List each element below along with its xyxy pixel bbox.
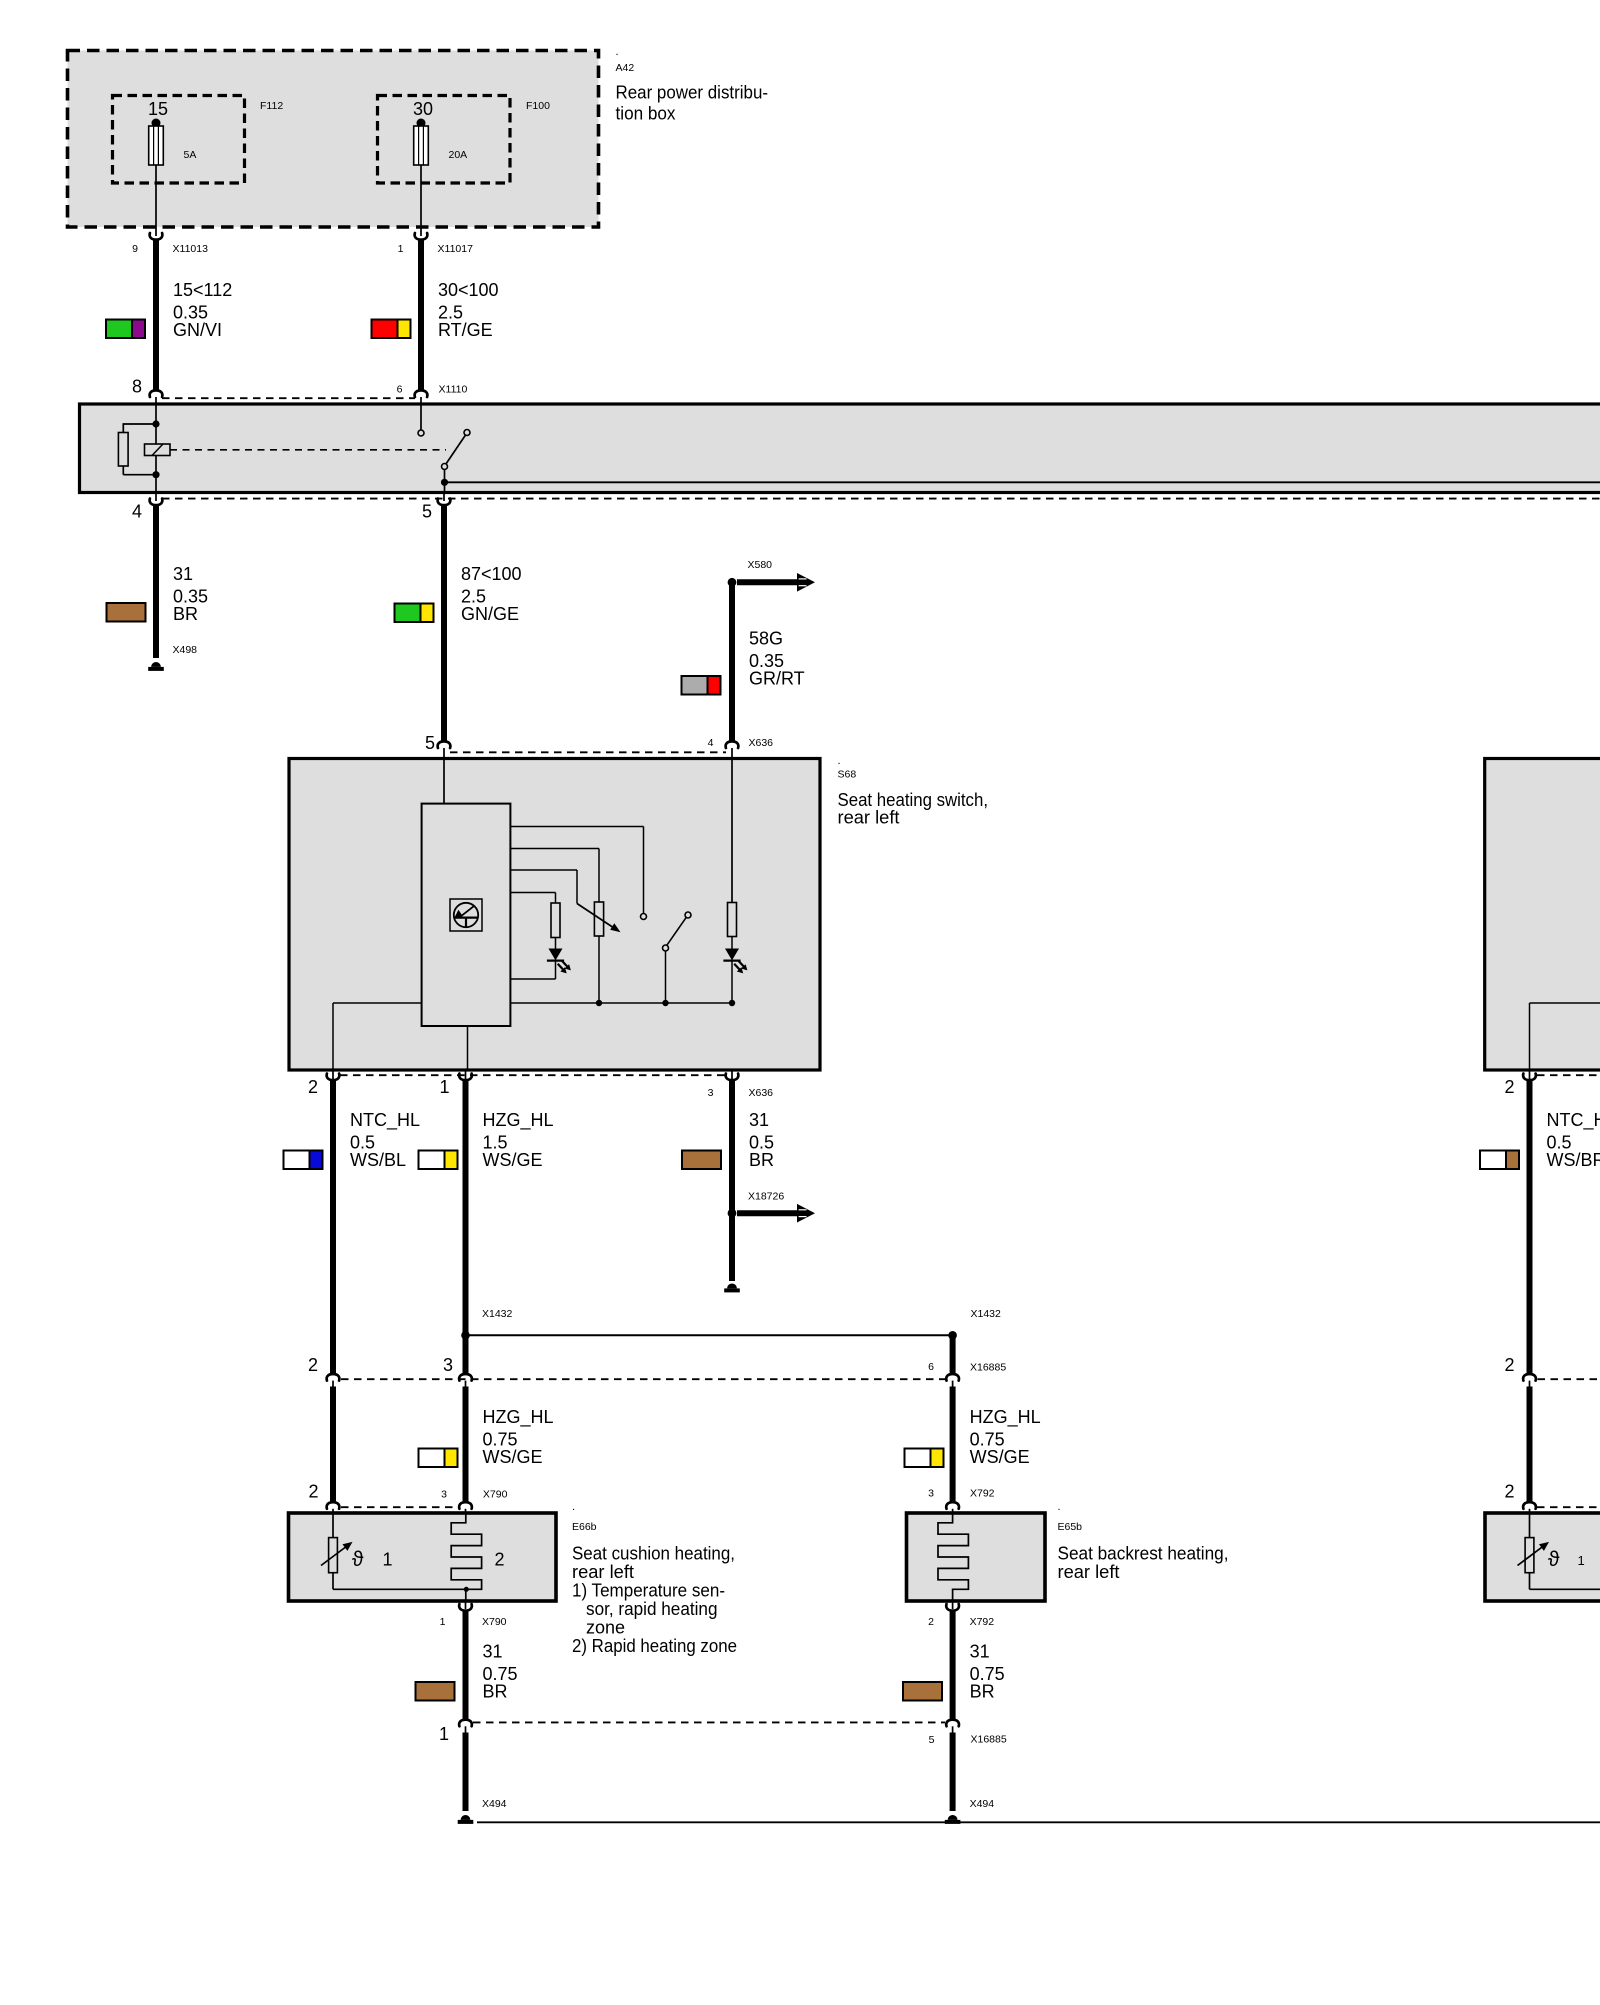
fuse holder F100 box bbox=[378, 96, 511, 184]
backlight resistor right bbox=[731, 748, 733, 903]
svg-text:8: 8 bbox=[132, 377, 142, 397]
svg-text:1) Temperature sen-: 1) Temperature sen- bbox=[572, 1581, 725, 1601]
wire 15<112 0.35 GN/VI bbox=[153, 239, 159, 391]
backlight LED right bbox=[725, 949, 739, 961]
relay coil branch wire bbox=[155, 404, 157, 493]
relay contact input from X1110 bbox=[420, 404, 422, 430]
seat backrest heating E65b box bbox=[907, 1513, 1046, 1601]
junction dot relay top bbox=[152, 420, 159, 427]
svg-text:rear left: rear left bbox=[838, 808, 900, 828]
svg-text:15: 15 bbox=[148, 99, 168, 119]
connector row X790 dashed bbox=[341, 1506, 459, 1508]
thermistor return wire right bbox=[1529, 1573, 1531, 1590]
svg-text:X18726: X18726 bbox=[748, 1191, 784, 1203]
svg-text:HZG_HL: HZG_HL bbox=[483, 1110, 554, 1131]
svg-text:X498: X498 bbox=[173, 644, 198, 656]
svg-text:31: 31 bbox=[970, 1642, 990, 1662]
svg-text:E66b: E66b bbox=[572, 1521, 597, 1533]
colour code WS/GE bbox=[419, 1449, 458, 1468]
connector row X1110 dashed line bbox=[162, 397, 415, 399]
internal wire w4 to indicator resistor bbox=[510, 892, 555, 894]
svg-text:1: 1 bbox=[398, 243, 404, 255]
svg-text:2: 2 bbox=[1504, 1355, 1514, 1375]
seat cushion heating rear right box bbox=[1485, 1513, 1600, 1601]
svg-text:sor, rapid heating: sor, rapid heating bbox=[586, 1599, 718, 1619]
wire 58G 0.35 GR/RT bbox=[729, 582, 735, 742]
strip bottom connector dashed row bbox=[162, 498, 1600, 500]
internal wire w1 to open contact bbox=[510, 826, 643, 828]
wire NTC_HL 0.5 WS/BR bbox=[1527, 1080, 1533, 1375]
strip output line to right edge bbox=[445, 481, 1600, 483]
wire from fuse F112 to box edge bbox=[155, 165, 157, 228]
svg-text:HZG_HL: HZG_HL bbox=[483, 1407, 554, 1428]
svg-text:WS/GE: WS/GE bbox=[483, 1447, 543, 1467]
wire HZG_HL 0.75 WS/GE cushion bbox=[463, 1387, 469, 1503]
svg-text:.: . bbox=[1058, 1501, 1061, 1513]
svg-text:5: 5 bbox=[929, 1734, 935, 1746]
ground X494 right bbox=[948, 1815, 958, 1820]
ground X498 bbox=[151, 662, 161, 667]
wire NTC right to X790r bbox=[1527, 1387, 1533, 1503]
svg-text:F100: F100 bbox=[526, 100, 550, 112]
connector X11017 pin 1 bbox=[420, 228, 422, 236]
svg-text:WS/GE: WS/GE bbox=[970, 1447, 1030, 1467]
wire HZG_HL 0.75 WS/GE backrest bbox=[950, 1387, 956, 1503]
wire 31 0.75 BR cushion bbox=[463, 1610, 469, 1720]
svg-text:30: 30 bbox=[413, 99, 433, 119]
svg-text:X11017: X11017 bbox=[438, 243, 474, 255]
internal wire w3 to wiper arrow bbox=[510, 869, 577, 871]
junction dot relay bottom bbox=[152, 471, 159, 478]
svg-text:31: 31 bbox=[173, 564, 193, 584]
potentiometer resistor bbox=[594, 902, 603, 936]
svg-text:1: 1 bbox=[439, 1724, 449, 1744]
svg-text:31: 31 bbox=[483, 1642, 503, 1662]
internal wire pin2 path bbox=[332, 1003, 334, 1070]
svg-text:X1432: X1432 bbox=[482, 1308, 513, 1320]
colour code BR bbox=[682, 1151, 721, 1170]
connector dashed row under right switch bbox=[1537, 1074, 1600, 1076]
svg-text:.: . bbox=[838, 755, 841, 767]
internal wire w2 to potentiometer bbox=[510, 848, 599, 850]
heating element in E65b bbox=[938, 1513, 968, 1601]
ground X494 left bbox=[461, 1815, 471, 1820]
svg-text:Seat backrest heating,: Seat backrest heating, bbox=[1058, 1544, 1229, 1564]
svg-text:tion box: tion box bbox=[616, 104, 676, 124]
connector row X16885 lower dashed bbox=[473, 1721, 945, 1723]
indicator resistor bbox=[551, 903, 560, 938]
svg-text:X494: X494 bbox=[970, 1798, 995, 1810]
colour code BR bbox=[107, 603, 146, 622]
svg-text:3: 3 bbox=[441, 1489, 447, 1501]
connector X636 bottom dashed row bbox=[340, 1074, 726, 1076]
transistor symbol in electronics unit bbox=[450, 899, 482, 931]
svg-text:3: 3 bbox=[928, 1488, 934, 1500]
svg-text:X580: X580 bbox=[748, 559, 773, 571]
svg-text:2: 2 bbox=[308, 1077, 318, 1097]
rear power distribution box A42 bbox=[68, 51, 599, 228]
svg-text:1: 1 bbox=[1578, 1553, 1585, 1568]
temperature sensor thermistor right bbox=[1529, 1513, 1531, 1538]
svg-text:A42: A42 bbox=[616, 62, 635, 74]
resistor parallel to relay coil bbox=[123, 423, 156, 425]
switch contact in S68 bbox=[685, 912, 691, 918]
connector X11013 pin 9 bbox=[155, 228, 157, 236]
svg-text:X636: X636 bbox=[749, 737, 774, 749]
svg-text:S68: S68 bbox=[838, 769, 857, 781]
svg-text:15<112: 15<112 bbox=[173, 280, 232, 300]
svg-text:5: 5 bbox=[425, 733, 435, 753]
colour code RT/GE bbox=[372, 320, 411, 339]
svg-text:2: 2 bbox=[308, 1482, 318, 1502]
svg-text:NTC_HL: NTC_HL bbox=[350, 1110, 420, 1131]
wire 87<100 2.5 GN/GE bbox=[441, 505, 447, 742]
connector X636 top dashed row bbox=[450, 751, 726, 753]
svg-text:X790: X790 bbox=[483, 1489, 508, 1501]
svg-text:BR: BR bbox=[483, 1682, 508, 1702]
svg-text:5A: 5A bbox=[184, 149, 197, 161]
seat heating switch S68 box bbox=[289, 759, 820, 1071]
svg-text:BR: BR bbox=[970, 1682, 995, 1702]
svg-text:F112: F112 bbox=[260, 100, 283, 112]
relay switch contact bbox=[464, 430, 470, 436]
wire 30<100 2.5 RT/GE bbox=[418, 239, 424, 391]
svg-text:1: 1 bbox=[440, 1616, 446, 1628]
seat heating switch rear right box bbox=[1485, 759, 1600, 1071]
connector row X16885 upper dashed bbox=[341, 1378, 945, 1380]
svg-text:X16885: X16885 bbox=[970, 1362, 1006, 1374]
wire 31 0.75 BR backrest bbox=[950, 1610, 956, 1720]
colour code GN/GE bbox=[395, 604, 434, 623]
svg-text:X11013: X11013 bbox=[173, 243, 209, 255]
relay module strip bbox=[80, 404, 1600, 493]
svg-text:rear left: rear left bbox=[572, 1562, 634, 1582]
svg-text:RT/GE: RT/GE bbox=[438, 320, 493, 340]
switch electronics unit rectangle bbox=[422, 804, 511, 1026]
wire X1432 to backrest branch bbox=[950, 1335, 956, 1374]
colour code WS/BR bbox=[1480, 1151, 1519, 1170]
svg-text:20A: 20A bbox=[449, 149, 468, 161]
junction dot switch output bbox=[441, 479, 448, 486]
svg-text:1: 1 bbox=[383, 1550, 393, 1570]
svg-text:GR/RT: GR/RT bbox=[749, 669, 805, 689]
svg-text:WS/BR: WS/BR bbox=[1547, 1150, 1600, 1170]
svg-text:NTC_HL: NTC_HL bbox=[1547, 1110, 1600, 1131]
relay coil K bbox=[145, 444, 171, 456]
seat cushion heating E66b box bbox=[289, 1513, 557, 1601]
svg-text:87<100: 87<100 bbox=[461, 564, 522, 584]
wire to ground X494 right bbox=[950, 1733, 956, 1812]
svg-text:31: 31 bbox=[749, 1110, 769, 1130]
colour code WS/BL bbox=[284, 1151, 323, 1170]
wire NTC to X790 bbox=[330, 1387, 336, 1503]
svg-text:WS/BL: WS/BL bbox=[350, 1150, 406, 1170]
svg-text:Rear power distribu-: Rear power distribu- bbox=[616, 83, 769, 103]
fuse holder F112 box bbox=[113, 96, 245, 184]
internal wire pin2 path right switch bbox=[1529, 1003, 1531, 1070]
colour code WS/GE bbox=[905, 1449, 944, 1468]
wire NTC_HL 0.5 WS/BL bbox=[330, 1080, 336, 1375]
colour code BR bbox=[416, 1682, 455, 1701]
svg-text:2: 2 bbox=[928, 1616, 934, 1628]
svg-text:X636: X636 bbox=[749, 1087, 774, 1099]
heating element in E66b bbox=[451, 1513, 481, 1601]
svg-text:6: 6 bbox=[397, 384, 403, 396]
colour code GN/VI bbox=[106, 320, 145, 339]
svg-text:2: 2 bbox=[308, 1355, 318, 1375]
wire from fuse F100 to box edge bbox=[420, 165, 422, 228]
svg-text:E65b: E65b bbox=[1058, 1521, 1083, 1533]
svg-text:rear left: rear left bbox=[1058, 1562, 1120, 1582]
svg-text:ϑ: ϑ bbox=[352, 1548, 364, 1571]
wire to ground X494 left bbox=[463, 1733, 469, 1812]
svg-text:3: 3 bbox=[708, 1087, 714, 1099]
temperature sensor thermistor in E66b bbox=[332, 1513, 334, 1538]
relay control dashed link bbox=[170, 449, 446, 451]
svg-text:BR: BR bbox=[173, 604, 198, 624]
svg-text:6: 6 bbox=[928, 1361, 934, 1373]
svg-text:X1432: X1432 bbox=[971, 1308, 1002, 1320]
svg-text:X792: X792 bbox=[970, 1488, 995, 1500]
wire HZG_HL 1.5 WS/GE bbox=[463, 1080, 469, 1375]
svg-text:Seat cushion heating,: Seat cushion heating, bbox=[572, 1544, 735, 1564]
svg-text:HZG_HL: HZG_HL bbox=[970, 1407, 1041, 1428]
colour code WS/GE bbox=[419, 1151, 458, 1170]
svg-text:X1110: X1110 bbox=[439, 384, 468, 396]
indicator LED left bbox=[549, 949, 563, 961]
svg-text:GN/VI: GN/VI bbox=[173, 320, 222, 340]
svg-text:2: 2 bbox=[1504, 1482, 1514, 1502]
svg-text:.: . bbox=[616, 46, 619, 58]
svg-text:5: 5 bbox=[422, 502, 432, 522]
svg-text:2: 2 bbox=[1504, 1077, 1514, 1097]
wire 31 0.35 BR to ground X498 bbox=[153, 505, 159, 659]
internal common rail bbox=[510, 1002, 732, 1004]
svg-text:.: . bbox=[572, 1501, 575, 1513]
interconnect wire X1432 bbox=[466, 1334, 953, 1336]
svg-text:2) Rapid heating zone: 2) Rapid heating zone bbox=[572, 1636, 737, 1656]
svg-text:4: 4 bbox=[132, 502, 142, 522]
svg-text:2: 2 bbox=[495, 1550, 505, 1570]
svg-text:58G: 58G bbox=[749, 629, 783, 649]
svg-text:X494: X494 bbox=[482, 1798, 507, 1810]
svg-text:zone: zone bbox=[586, 1618, 625, 1638]
svg-text:X790: X790 bbox=[482, 1616, 507, 1628]
wire pin5 stub into electronics bbox=[443, 748, 445, 804]
wire 31 0.5 BR bbox=[729, 1080, 735, 1282]
colour code BR bbox=[903, 1682, 942, 1701]
svg-text:3: 3 bbox=[443, 1355, 453, 1375]
internal wire pin1 from electronics bottom bbox=[467, 1026, 469, 1070]
svg-text:WS/GE: WS/GE bbox=[483, 1150, 543, 1170]
thermistor return wire bbox=[332, 1573, 334, 1590]
svg-text:X16885: X16885 bbox=[971, 1734, 1007, 1746]
wire contact to strip bottom bbox=[444, 482, 446, 492]
ground after X18726 bbox=[727, 1284, 737, 1289]
svg-text:X792: X792 bbox=[970, 1616, 995, 1628]
svg-text:BR: BR bbox=[749, 1150, 774, 1170]
svg-text:9: 9 bbox=[132, 243, 138, 255]
colour code GR/RT bbox=[682, 676, 721, 695]
svg-text:ϑ: ϑ bbox=[1548, 1548, 1560, 1571]
svg-text:1: 1 bbox=[439, 1077, 449, 1097]
svg-text:30<100: 30<100 bbox=[438, 280, 499, 300]
svg-text:GN/GE: GN/GE bbox=[461, 604, 519, 624]
svg-text:4: 4 bbox=[708, 737, 714, 749]
ground bus line bbox=[477, 1821, 1600, 1823]
